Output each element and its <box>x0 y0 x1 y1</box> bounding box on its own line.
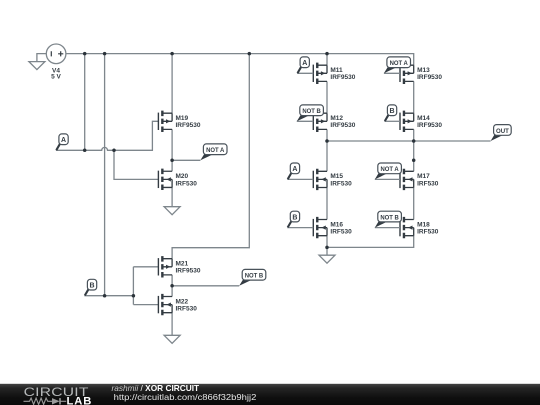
wire M14 drain to M17 drain <box>413 129 415 171</box>
svg-text:M20: M20 <box>176 173 189 180</box>
svg-text:NOT A: NOT A <box>206 148 225 154</box>
voltage source V4 <box>46 44 66 81</box>
node OUT flag <box>491 125 512 141</box>
wire M22 source to ground <box>171 313 173 336</box>
wire M11 drain to M12 source <box>326 81 328 113</box>
wire V4 negative to ground <box>37 54 47 62</box>
transistor M13 IRF9530 <box>400 63 442 84</box>
svg-text:A: A <box>292 166 297 173</box>
svg-text:M19: M19 <box>176 115 189 122</box>
svg-text:M11: M11 <box>330 67 343 74</box>
footer bar <box>0 384 540 405</box>
svg-text:M13: M13 <box>417 67 430 74</box>
wire sources to ground bus <box>327 236 414 256</box>
M16 gate wire and node B flag <box>287 211 313 227</box>
svg-text:B: B <box>90 283 95 290</box>
svg-text:5 V: 5 V <box>51 74 61 81</box>
wire rail to M11 source <box>326 54 328 66</box>
wire M13 drain to M14 source <box>413 81 415 113</box>
svg-text:NOT B: NOT B <box>302 109 321 115</box>
wire node A to M20 gate <box>114 150 158 179</box>
svg-text:IRF530: IRF530 <box>330 229 352 236</box>
svg-text:IRF530: IRF530 <box>417 180 439 187</box>
svg-text:B: B <box>292 214 297 221</box>
node A flag (input) <box>56 134 68 150</box>
CircuitLab logo <box>24 385 93 405</box>
svg-text:M15: M15 <box>330 173 343 180</box>
wire B to M21 and M22 gates <box>133 267 158 305</box>
transistor M14 IRF9530 <box>400 111 442 132</box>
svg-text:M14: M14 <box>417 115 430 122</box>
svg-text:OUT: OUT <box>496 128 509 135</box>
svg-text:M21: M21 <box>176 261 189 268</box>
transistor M20 IRF530 <box>158 169 197 190</box>
M15 gate wire and node A flag <box>287 163 313 179</box>
transistor M22 IRF530 <box>158 294 197 315</box>
transistor M11 IRF9530 <box>313 63 355 84</box>
svg-text:A: A <box>302 60 307 67</box>
svg-text:IRF9530: IRF9530 <box>330 122 355 129</box>
wire rail to node B (crosses A wire) <box>104 54 106 296</box>
node NOT A flag (inverter output) <box>200 144 227 160</box>
svg-text:M22: M22 <box>176 298 189 305</box>
transistor M19 IRF9530 <box>158 111 200 132</box>
svg-text:IRF530: IRF530 <box>330 180 352 187</box>
transistor M18 IRF530 <box>400 217 439 238</box>
wire M12 drain to M15 drain <box>326 129 328 171</box>
transistor M21 IRF9530 <box>158 256 200 277</box>
node NOT B flag (inverter output) <box>239 269 266 285</box>
M13 gate wire and node NOT A flag <box>384 57 411 73</box>
svg-text:LAB: LAB <box>67 395 93 405</box>
svg-text:IRF530: IRF530 <box>176 180 198 187</box>
wire NOT A node (M19 drain to M20 drain) <box>172 129 200 171</box>
wire rail to M21 source <box>172 54 249 259</box>
svg-text:NOT A: NOT A <box>380 167 399 173</box>
wire node B <box>84 295 133 297</box>
svg-text:NOT B: NOT B <box>380 215 399 221</box>
svg-text:IRF9530: IRF9530 <box>176 268 201 275</box>
svg-text:M18: M18 <box>417 221 430 228</box>
svg-text:NOT A: NOT A <box>390 61 409 67</box>
ground (bottom) <box>319 255 335 263</box>
transistor M15 IRF530 <box>313 169 352 190</box>
svg-text:IRF9530: IRF9530 <box>417 74 442 81</box>
wire M15 source to M16 drain <box>326 188 328 220</box>
svg-text:IRF9530: IRF9530 <box>330 74 355 81</box>
M12 gate wire and node NOT B flag <box>297 105 324 121</box>
transistor M17 IRF530 <box>400 169 439 190</box>
transistor M16 IRF530 <box>313 217 352 238</box>
wire rail to M19 source <box>171 54 173 114</box>
wire rail to node A <box>84 54 86 151</box>
node B flag (input) <box>85 279 97 295</box>
wire M17 source to M18 drain <box>413 188 415 220</box>
svg-text:IRF530: IRF530 <box>176 306 198 313</box>
svg-text:NOT B: NOT B <box>245 274 264 280</box>
svg-text:M12: M12 <box>330 115 343 122</box>
wire node A with hop over B wire <box>56 121 158 150</box>
transistor M12 IRF9530 <box>313 111 355 132</box>
wire NOT B node (M21 drain to M22 drain) <box>172 275 239 297</box>
svg-text:B: B <box>390 108 395 115</box>
ground (V4) <box>29 62 45 70</box>
ground (M22) <box>164 335 180 343</box>
M17 gate wire and node NOT A flag <box>375 163 402 179</box>
M18 gate wire and node NOT B flag <box>375 211 402 227</box>
svg-text:IRF530: IRF530 <box>417 229 439 236</box>
svg-text:M17: M17 <box>417 173 430 180</box>
wire VCC rail <box>66 54 414 66</box>
ground (M20) <box>164 207 180 215</box>
wire OUT node <box>327 140 491 142</box>
svg-text:A: A <box>61 137 66 144</box>
wire M20 source to ground <box>171 187 173 206</box>
svg-text:M16: M16 <box>330 221 343 228</box>
svg-text:http://circuitlab.com/c866f32b: http://circuitlab.com/c866f32b9hjj2 <box>114 392 257 402</box>
M14 gate wire and node B flag <box>384 105 400 121</box>
svg-text:IRF9530: IRF9530 <box>417 122 442 129</box>
svg-text:IRF9530: IRF9530 <box>176 122 201 129</box>
M11 gate wire and node A flag <box>297 57 313 73</box>
